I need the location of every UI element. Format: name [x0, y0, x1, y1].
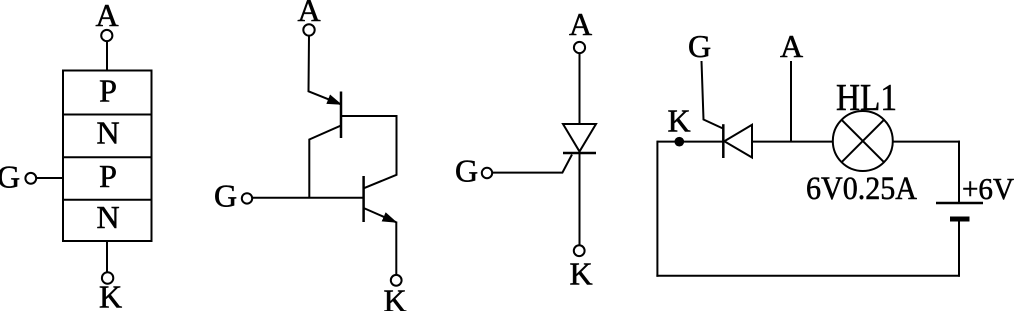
svg-text:P: P	[99, 158, 117, 194]
transistor Q2 base bar (NPN)	[362, 176, 365, 222]
layer divider 1	[63, 114, 152, 116]
layer divider 2	[63, 156, 152, 158]
layer divider 3	[63, 199, 152, 201]
gate wire	[36, 177, 63, 179]
wire emitter down to cathode	[395, 222, 397, 275]
lamp HL1 circle	[833, 111, 893, 171]
terminal circle K	[102, 272, 113, 283]
terminal circle K	[574, 245, 585, 256]
bottom wire	[656, 275, 960, 277]
svg-text:A: A	[569, 6, 592, 42]
PNPN structure box	[63, 71, 152, 242]
top wire right segment	[893, 141, 960, 143]
transistor Q1 base bar (PNP)	[340, 92, 343, 139]
svg-text:K: K	[569, 256, 592, 292]
right wire lower	[958, 222, 960, 277]
top wire left segment	[657, 141, 723, 143]
emitter wire of NPN with arrow outward	[364, 208, 396, 222]
gate terminal circle	[482, 168, 492, 178]
cathode bar	[563, 152, 596, 155]
terminal circle A	[574, 42, 585, 53]
lamp cross line 1	[842, 120, 884, 162]
lamp cross line 2	[842, 120, 884, 162]
terminal circle K	[391, 275, 402, 286]
battery negative plate	[950, 217, 970, 222]
wire Q1 collector to Q2 base	[309, 126, 341, 198]
svg-text:A: A	[95, 0, 118, 33]
thyristor VT cathode bar	[722, 124, 725, 158]
svg-text:6V0.25A: 6V0.25A	[806, 171, 917, 207]
svg-text:G: G	[0, 159, 20, 195]
svg-text:N: N	[96, 115, 119, 151]
gate wire to Q2 base	[252, 197, 363, 199]
emitter wire of PNP with arrow into base	[309, 36, 341, 105]
gate wire	[702, 61, 724, 129]
gate terminal circle	[242, 193, 252, 203]
svg-text:+6V: +6V	[962, 171, 1015, 206]
terminal circle A	[101, 30, 112, 41]
anode wire	[579, 53, 581, 124]
gate wire	[492, 155, 572, 173]
thyristor VT triangle	[724, 125, 752, 158]
top wire middle segment	[752, 141, 833, 143]
svg-text:G: G	[455, 153, 478, 189]
terminal circle A	[303, 24, 314, 35]
svg-text:K: K	[383, 283, 406, 311]
svg-text:A: A	[780, 28, 803, 64]
svg-text:N: N	[96, 199, 119, 235]
svg-text:K: K	[99, 279, 122, 311]
wire anode to box	[106, 41, 108, 70]
svg-text:P: P	[99, 73, 117, 109]
svg-text:G: G	[688, 28, 711, 64]
right wire upper	[958, 141, 960, 202]
wire box to cathode	[106, 241, 108, 272]
cathode wire	[579, 154, 581, 245]
node K junction dot	[675, 137, 685, 147]
gate terminal circle	[25, 173, 36, 184]
svg-text:K: K	[667, 103, 690, 139]
wire anode tap	[790, 61, 792, 142]
left wire	[656, 141, 658, 277]
thyristor triangle	[563, 124, 596, 152]
svg-text:G: G	[214, 178, 237, 214]
wire Q1 base to Q2 collector	[341, 116, 397, 188]
battery positive plate	[936, 202, 983, 205]
